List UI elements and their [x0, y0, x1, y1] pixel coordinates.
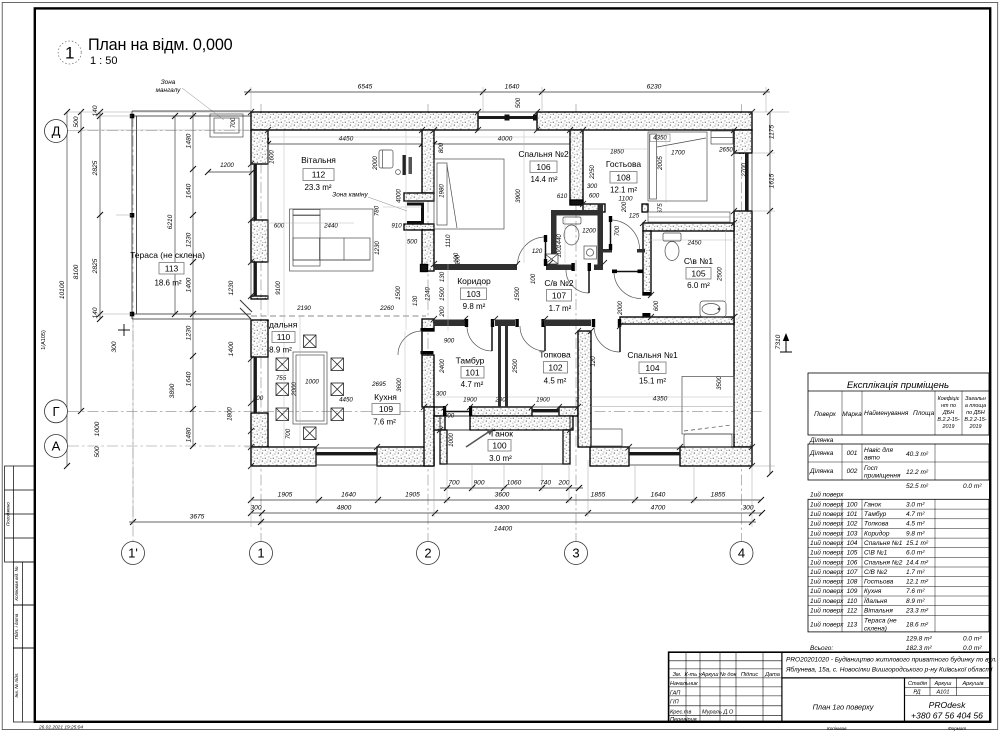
- svg-text:Топкова: Топкова: [539, 350, 571, 360]
- svg-text:23.3 m²: 23.3 m²: [905, 608, 929, 615]
- top wall left segment: [251, 112, 478, 130]
- leaf tambour door: [491, 326, 493, 351]
- leaf bathroom105 door: [614, 271, 641, 273]
- svg-text:125: 125: [629, 213, 640, 220]
- svg-text:1ий поверх: 1ий поверх: [810, 587, 844, 595]
- svg-text:Їдальня: Їдальня: [864, 597, 888, 605]
- svg-text:1905: 1905: [405, 492, 420, 499]
- arc wc107 door: [566, 270, 589, 293]
- svg-text:2019: 2019: [969, 424, 982, 430]
- svg-text:1200: 1200: [582, 228, 596, 235]
- svg-text:Кухня: Кухня: [864, 588, 882, 595]
- svg-text:Спальня №1: Спальня №1: [864, 540, 903, 547]
- svg-text:Ганок: Ганок: [491, 429, 513, 439]
- wc107 walls: [551, 210, 603, 216]
- svg-text:200: 200: [439, 306, 446, 318]
- svg-text:2000: 2000: [617, 301, 624, 316]
- svg-text:1100: 1100: [618, 196, 633, 203]
- box: інв номер: [13, 648, 34, 722]
- svg-text:Зм.: Зм.: [673, 672, 682, 678]
- armchair: [379, 150, 393, 168]
- chain labels: [190, 84, 754, 533]
- svg-text:Крес.тв: Крес.тв: [670, 710, 691, 716]
- svg-text:6.0 m²: 6.0 m²: [687, 281, 710, 290]
- svg-text:1ий поверх: 1ий поверх: [810, 491, 844, 499]
- bubble Д: [45, 120, 68, 143]
- svg-text:1640: 1640: [651, 492, 666, 499]
- svg-text:740: 740: [540, 480, 551, 487]
- wc105 toilet: [663, 233, 681, 241]
- svg-text:112: 112: [312, 170, 326, 180]
- svg-text:4: 4: [738, 546, 745, 561]
- wardrobe niche guest room: [648, 212, 730, 222]
- svg-text:200: 200: [557, 480, 569, 487]
- svg-text:113: 113: [165, 263, 179, 273]
- svg-text:900: 900: [473, 480, 484, 487]
- leaf bedroom2 door: [545, 239, 547, 265]
- svg-text:105: 105: [691, 268, 705, 278]
- view circle 1: [58, 41, 81, 64]
- svg-text:130: 130: [439, 271, 446, 282]
- svg-text:780: 780: [374, 205, 381, 216]
- svg-text:склена): склена): [864, 626, 887, 633]
- open plan zone dashed line: [251, 315, 426, 317]
- svg-text:104: 104: [645, 363, 659, 373]
- svg-text:1850: 1850: [610, 149, 624, 156]
- svg-text:1400: 1400: [228, 341, 235, 356]
- leader mangal: [182, 88, 224, 120]
- svg-text:1: 1: [257, 546, 264, 561]
- svg-text:500: 500: [515, 97, 522, 108]
- svg-text:9.8 m²: 9.8 m²: [906, 530, 925, 537]
- svg-text:300: 300: [111, 341, 118, 352]
- axis2 wall segments: [422, 130, 434, 193]
- svg-text:Інв. № підл.: Інв. № підл.: [14, 673, 19, 698]
- right window: [734, 153, 752, 211]
- terrace mangal: [210, 114, 243, 137]
- svg-text:0.0 m²: 0.0 m²: [963, 483, 982, 490]
- interior dimension labels: [220, 135, 749, 420]
- svg-text:Копіював від. №: Копіював від. №: [14, 566, 19, 600]
- svg-text:910: 910: [391, 223, 402, 230]
- svg-text:12.1 m²: 12.1 m²: [610, 186, 637, 195]
- svg-text:Тераса (не склена): Тераса (не склена): [130, 250, 205, 260]
- svg-text:РД: РД: [913, 690, 920, 696]
- svg-text:2500: 2500: [512, 359, 519, 374]
- svg-text:Тамбур: Тамбур: [456, 356, 485, 366]
- svg-text:110: 110: [277, 332, 291, 342]
- svg-text:1': 1': [128, 546, 138, 561]
- svg-text:План на відм. 0,000: План на відм. 0,000: [88, 36, 233, 54]
- svg-text:2695: 2695: [371, 381, 386, 388]
- svg-text:23.3 m²: 23.3 m²: [304, 183, 331, 192]
- left window W1: [251, 164, 268, 220]
- svg-text:40.3 m²: 40.3 m²: [906, 451, 929, 458]
- svg-text:7.6 m²: 7.6 m²: [906, 588, 925, 595]
- svg-text:Ганок: Ганок: [864, 501, 882, 508]
- svg-text:3675: 3675: [190, 514, 205, 521]
- ticks: [64, 89, 773, 525]
- svg-text:С\В №1: С\В №1: [864, 550, 888, 557]
- top window: [478, 112, 537, 130]
- svg-text:+380 67 56 404 56: +380 67 56 404 56: [911, 711, 983, 721]
- svg-text:Підпис: Підпис: [741, 672, 759, 678]
- svg-text:10100: 10100: [59, 281, 66, 300]
- axis 2 line: [427, 104, 429, 541]
- svg-text:2400: 2400: [439, 359, 446, 374]
- left window W2: [251, 262, 268, 296]
- svg-text:300: 300: [436, 391, 447, 398]
- svg-text:129.8 m²: 129.8 m²: [906, 636, 932, 643]
- bottom chains: [440, 487, 583, 489]
- svg-text:Коридор: Коридор: [864, 529, 890, 537]
- svg-text:001: 001: [847, 450, 858, 457]
- tambour/topkova partition: [498, 326, 501, 407]
- svg-text:4300: 4300: [495, 505, 510, 512]
- svg-text:Всього:: Всього:: [810, 645, 833, 652]
- svg-text:2019: 2019: [942, 424, 955, 430]
- svg-text:120: 120: [532, 248, 543, 255]
- svg-text:105: 105: [847, 550, 858, 557]
- approval strip boxes: [5, 466, 35, 562]
- svg-text:2500: 2500: [717, 267, 724, 282]
- axis Д line: [68, 130, 252, 132]
- svg-text:4450: 4450: [339, 136, 354, 143]
- svg-text:103: 103: [847, 530, 858, 537]
- svg-text:1230: 1230: [374, 241, 381, 255]
- svg-text:4350: 4350: [653, 135, 667, 142]
- svg-text:1ий поверх: 1ий поверх: [810, 597, 844, 605]
- svg-text:по ДБН: по ДБН: [966, 410, 985, 416]
- svg-text:107: 107: [847, 569, 858, 576]
- kitchen door arc at axis2 wall: [398, 331, 422, 355]
- duct shaft hatched: [545, 254, 558, 264]
- svg-text:6545: 6545: [358, 84, 373, 91]
- svg-text:1640: 1640: [341, 492, 356, 499]
- svg-text:С/в №2: С/в №2: [544, 278, 573, 288]
- svg-text:140: 140: [92, 105, 99, 116]
- zone labels: [156, 79, 182, 94]
- svg-text:100: 100: [847, 501, 858, 508]
- svg-text:1230: 1230: [186, 325, 193, 340]
- svg-text:Коридор: Коридор: [457, 276, 491, 286]
- svg-text:500: 500: [407, 239, 418, 246]
- svg-text:Марка: Марка: [842, 411, 862, 418]
- axis Г line: [68, 410, 762, 412]
- svg-text:3890: 3890: [169, 383, 176, 398]
- svg-text:1(А105): 1(А105): [41, 330, 47, 350]
- svg-text:2250: 2250: [589, 165, 596, 180]
- svg-text:Вітальня: Вітальня: [301, 155, 336, 165]
- svg-text:101: 101: [847, 511, 858, 518]
- svg-text:2: 2: [424, 546, 431, 561]
- leaf guest door: [610, 219, 612, 249]
- svg-text:Г: Г: [52, 404, 59, 419]
- guest bed: [648, 132, 707, 201]
- svg-text:600: 600: [589, 193, 600, 200]
- svg-text:Мураль Д.О: Мураль Д.О: [702, 710, 734, 716]
- svg-text:1ий поверх: 1ий поверх: [810, 578, 844, 586]
- svg-text:2260: 2260: [379, 305, 394, 312]
- svg-text:1ий поверх: 1ий поверх: [810, 568, 844, 576]
- top main chain: [244, 91, 770, 93]
- svg-text:2825: 2825: [92, 160, 99, 176]
- svg-text:106: 106: [847, 559, 858, 566]
- extension lines: [68, 87, 789, 527]
- terrace columns: [130, 114, 135, 119]
- svg-text:14.4 m²: 14.4 m²: [906, 559, 929, 566]
- dining table: [293, 352, 327, 424]
- svg-text:1000: 1000: [305, 379, 319, 386]
- svg-text:4.7 m²: 4.7 m²: [906, 511, 925, 518]
- svg-text:1ий поверх: 1ий поверх: [810, 558, 844, 566]
- svg-text:ГІП: ГІП: [670, 700, 680, 706]
- svg-text:104: 104: [847, 540, 858, 547]
- svg-text:С/В №2: С/В №2: [864, 569, 888, 576]
- svg-text:109: 109: [847, 588, 858, 595]
- svg-text:700: 700: [614, 225, 621, 236]
- axis 1 line: [260, 104, 262, 541]
- svg-text:7310: 7310: [775, 334, 782, 349]
- dining chairs: [276, 335, 344, 440]
- svg-text:106: 106: [536, 162, 550, 172]
- bedroom1 left wall: [578, 331, 591, 447]
- svg-text:108: 108: [847, 579, 858, 586]
- svg-text:В.2.2-15-: В.2.2-15-: [937, 417, 959, 423]
- svg-text:Спальня №2: Спальня №2: [864, 559, 903, 566]
- svg-text:Начальник: Начальник: [670, 681, 698, 687]
- svg-text:3600: 3600: [396, 378, 403, 392]
- svg-text:4800: 4800: [337, 505, 352, 512]
- svg-text:101: 101: [465, 367, 479, 377]
- porch upper band: [434, 416, 445, 430]
- svg-text:1ий поверх: 1ий поверх: [810, 500, 844, 508]
- svg-text:109: 109: [379, 404, 393, 414]
- svg-text:14400: 14400: [494, 526, 513, 533]
- north arrow right: [780, 333, 792, 352]
- svg-text:Аркуш: Аркуш: [701, 672, 719, 678]
- svg-text:3600: 3600: [495, 492, 510, 499]
- fireplace: [407, 204, 423, 223]
- svg-text:Стадія: Стадія: [908, 681, 927, 687]
- svg-text:1500: 1500: [514, 287, 521, 301]
- svg-text:500: 500: [94, 446, 101, 457]
- svg-text:2825: 2825: [92, 258, 99, 274]
- leader fireplace zone: [368, 197, 407, 211]
- svg-text:1ий поверх: 1ий поверх: [810, 621, 844, 629]
- svg-text:8.9 m²: 8.9 m²: [906, 598, 925, 605]
- svg-text:4450: 4450: [339, 397, 353, 404]
- svg-text:1110: 1110: [445, 234, 452, 247]
- svg-text:700: 700: [448, 480, 459, 487]
- svg-text:А101: А101: [935, 690, 949, 696]
- door jamb caps: [465, 319, 468, 327]
- svg-text:1640: 1640: [505, 84, 520, 91]
- svg-text:Гостьова: Гостьова: [864, 579, 894, 586]
- svg-text:9.8 m²: 9.8 m²: [463, 302, 486, 311]
- bathroom105 floor wall: [620, 317, 734, 324]
- svg-text:1.7 m²: 1.7 m²: [906, 569, 925, 576]
- svg-text:6230: 6230: [647, 84, 662, 91]
- svg-text:1480: 1480: [186, 133, 193, 148]
- corridor south wall segments: [434, 320, 465, 327]
- svg-text:Підп. і дата: Підп. і дата: [14, 613, 19, 639]
- arc topkova door: [520, 326, 545, 351]
- svg-text:1ий поверх: 1ий поверх: [810, 520, 844, 528]
- svg-text:Аркуш: Аркуш: [934, 681, 952, 687]
- svg-text:Яблунева, 15а, с. Новосілки Ви: Яблунева, 15а, с. Новосілки Вишгородсько…: [785, 666, 993, 674]
- svg-text:900: 900: [444, 338, 455, 345]
- svg-text:Навіс для: Навіс для: [864, 446, 893, 454]
- svg-text:Ділянка: Ділянка: [809, 449, 834, 457]
- axis 1' line: [132, 116, 134, 541]
- svg-text:1ий поверх: 1ий поверх: [810, 529, 844, 537]
- svg-text:Копіював: Копіював: [827, 726, 847, 731]
- svg-text:8100: 8100: [73, 264, 80, 279]
- svg-text:Госп: Госп: [864, 465, 878, 472]
- svg-text:102: 102: [847, 521, 858, 528]
- svg-text:авто: авто: [864, 455, 880, 462]
- interior light dim lines: [268, 131, 734, 446]
- svg-text:4.5 m²: 4.5 m²: [906, 521, 925, 528]
- svg-text:4700: 4700: [651, 505, 666, 512]
- svg-text:8.9 m²: 8.9 m²: [269, 346, 292, 355]
- tambour entry door leaf: [445, 411, 470, 413]
- bubble 1: [250, 542, 273, 565]
- explication table frame: [808, 373, 989, 632]
- bubble Г: [45, 400, 68, 423]
- svg-text:700: 700: [230, 117, 237, 128]
- svg-text:107: 107: [552, 290, 566, 300]
- svg-text:Тераса (не: Тераса (не: [864, 618, 897, 625]
- svg-text:1640: 1640: [186, 183, 193, 198]
- arc guest door: [611, 220, 640, 249]
- bathroom105 left wall: [643, 231, 651, 295]
- svg-text:нт по: нт по: [941, 403, 956, 409]
- svg-text:К-ть у: К-ть у: [684, 672, 702, 678]
- svg-text:Д: Д: [52, 124, 61, 139]
- svg-text:182.3 m²: 182.3 m²: [906, 645, 932, 652]
- svg-text:Площа: Площа: [913, 410, 935, 417]
- thin partitions: [434, 204, 645, 407]
- section marker 1(А105) left: [118, 324, 130, 336]
- left wall segments: [251, 130, 268, 164]
- guest room south wall: [583, 204, 605, 212]
- hall partition stubs: [600, 249, 612, 253]
- wc107 washer: [584, 246, 597, 259]
- leaf topkova door: [544, 326, 546, 351]
- svg-text:600: 600: [653, 300, 660, 311]
- svg-text:130: 130: [412, 295, 419, 306]
- svg-text:500: 500: [73, 116, 80, 127]
- svg-text:мангалу: мангалу: [156, 87, 182, 94]
- bubble 1': [122, 542, 145, 565]
- svg-text:1600: 1600: [269, 150, 276, 164]
- sofa living room: [290, 209, 374, 271]
- svg-text:6210: 6210: [167, 214, 174, 229]
- svg-text:Експлікація приміщень: Експлікація приміщень: [847, 380, 949, 391]
- svg-text:Ділянка: Ділянка: [809, 467, 834, 475]
- bottom wall kitchen segments: [251, 447, 316, 466]
- svg-text:1480: 1480: [186, 427, 193, 442]
- svg-text:ДБН: ДБН: [942, 410, 954, 416]
- svg-text:15.1 m²: 15.1 m²: [639, 377, 666, 386]
- bathroom105 top wall: [643, 223, 734, 231]
- svg-text:PRO20201020 - Будівництво житл: PRO20201020 - Будівництво житлового прив…: [786, 656, 997, 664]
- svg-text:700: 700: [285, 428, 292, 439]
- svg-text:52.5 m²: 52.5 m²: [906, 483, 929, 490]
- svg-text:100: 100: [453, 252, 460, 263]
- svg-text:1 : 50: 1 : 50: [90, 55, 118, 67]
- svg-text:1000: 1000: [94, 421, 101, 436]
- svg-text:1500: 1500: [439, 287, 446, 301]
- svg-text:1: 1: [65, 44, 74, 63]
- bubble 2: [417, 542, 440, 565]
- terrace door opening steps: [240, 300, 252, 319]
- svg-text:1230: 1230: [186, 232, 193, 247]
- inner top chain: [268, 143, 578, 145]
- svg-text:1400: 1400: [186, 277, 193, 292]
- wc105 sink: [700, 301, 726, 317]
- svg-text:Гостьова: Гостьова: [606, 159, 641, 169]
- svg-text:1440: 1440: [556, 234, 563, 248]
- left window W3: [251, 357, 268, 413]
- svg-text:Топкова: Топкова: [864, 521, 889, 528]
- leaf wc107 door: [588, 270, 590, 293]
- right wall segments: [734, 130, 752, 153]
- svg-text:В.2.2-15-: В.2.2-15-: [964, 417, 986, 423]
- guest wardrobe: [711, 131, 733, 144]
- svg-text:140: 140: [92, 307, 99, 318]
- svg-text:3500: 3500: [716, 376, 723, 390]
- bubble 3: [565, 542, 588, 565]
- bedroom1 dim line: [591, 406, 734, 408]
- axis А line: [68, 445, 253, 447]
- svg-text:12.2 m²: 12.2 m²: [906, 469, 929, 476]
- kitchen window: [316, 447, 377, 466]
- bottom wall bedroom1 segments: [590, 447, 629, 466]
- svg-text:3900: 3900: [515, 189, 522, 203]
- svg-text:0.0 m²: 0.0 m²: [963, 645, 982, 652]
- porch piers: [440, 430, 447, 464]
- porch outline: [440, 416, 570, 464]
- svg-text:2650: 2650: [718, 147, 733, 154]
- svg-text:Перевірив: Перевірив: [670, 717, 697, 723]
- arc bedroom2 door: [518, 237, 546, 265]
- project description: [785, 656, 997, 674]
- svg-text:Дата: Дата: [764, 672, 780, 678]
- svg-text:300: 300: [587, 183, 598, 190]
- svg-text:Спальня №1: Спальня №1: [627, 350, 678, 360]
- topkova window to porch: [532, 409, 559, 412]
- svg-text:1060: 1060: [507, 480, 522, 487]
- arc bathroom105 door: [614, 272, 641, 299]
- bedroom1 dresser: [591, 429, 622, 446]
- svg-text:1980: 1980: [439, 184, 446, 198]
- svg-text:Їдальня: Їдальня: [267, 320, 298, 330]
- svg-text:9100: 9100: [275, 281, 282, 295]
- terrace outline: [132, 111, 251, 319]
- svg-text:Вітальня: Вітальня: [864, 607, 893, 615]
- svg-text:12.1 m²: 12.1 m²: [906, 579, 929, 586]
- arc tambour door: [467, 326, 492, 351]
- svg-text:4350: 4350: [653, 396, 668, 403]
- svg-text:26.02.2021 19:25:04: 26.02.2021 19:25:04: [38, 725, 83, 731]
- svg-text:Зона: Зона: [161, 79, 176, 86]
- svg-text:1ий поверх: 1ий поверх: [810, 510, 844, 518]
- bedroom1 window A: [629, 448, 680, 465]
- svg-text:14.4 m²: 14.4 m²: [530, 175, 557, 184]
